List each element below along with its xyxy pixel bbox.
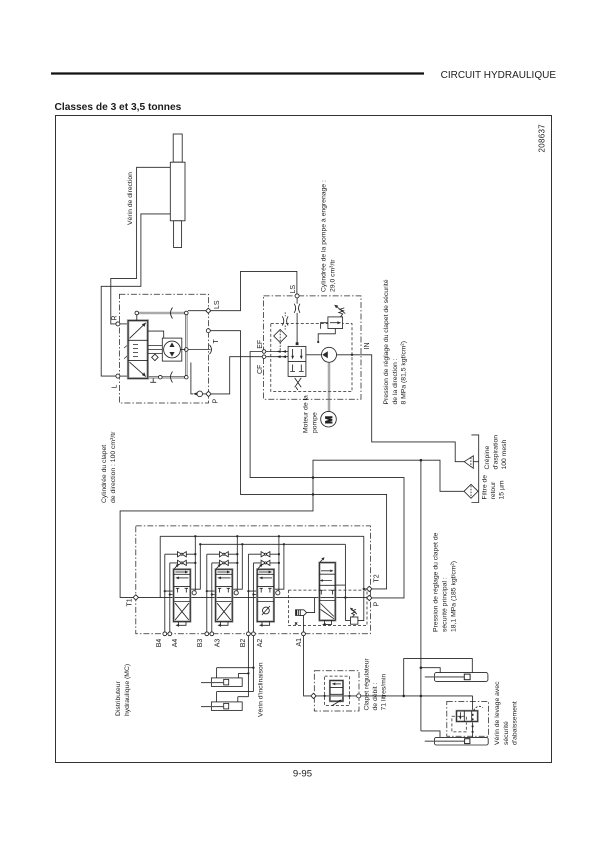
svg-text:B3: B3 [197,639,204,648]
node L [116,374,120,378]
steering valve top diagonal [130,323,146,339]
direction relief valve body [328,317,343,329]
node T2 [367,586,372,591]
open-center gallery [138,597,367,599]
svg-text:T1: T1 [127,598,134,606]
svg-text:CF: CF [257,365,264,374]
svg-text:CIRCUIT HYDRAULIQUE: CIRCUIT HYDRAULIQUE [441,70,557,81]
svg-text:Vérin de levage avec: Vérin de levage avec [494,681,501,745]
lift safety inner dashed box [452,716,466,732]
svg-text:T2: T2 [373,574,380,582]
svg-text:B4: B4 [156,639,163,648]
junction rod line [420,666,423,669]
steering cylinder rod top [173,134,182,162]
steering valve body halo [128,321,148,379]
steering cylinder rod bottom [174,221,182,248]
relief spring [339,308,345,317]
pump unit dash-dot box [264,296,361,399]
priority valve lower glyphs [290,365,303,372]
svg-text:A2: A2 [257,639,264,648]
S4 float diagonals [321,604,334,619]
safety valve pilot arc [474,706,483,710]
CF line to valve [266,356,288,358]
feedback link top [137,312,187,314]
main relief left link [345,620,350,622]
svg-text:EF: EF [257,340,264,349]
main relief arrow [351,609,357,615]
relief arrowhead [337,321,341,324]
orifice 1 [294,304,300,313]
svg-text:29,0 cm³/tr: 29,0 cm³/tr [329,259,336,292]
check diamond inside [152,354,159,361]
svg-text:R: R [111,315,118,320]
svg-text:Crépine: Crépine [484,445,491,469]
wire A2 to tilt rod sides [217,636,254,702]
spool to gerotor stubs [148,346,163,354]
node CF [262,355,266,359]
lift cylinder 1 rod [425,676,465,678]
main relief right link [358,591,364,621]
spring anchor line right [188,349,210,351]
svg-text:A3: A3 [215,639,222,648]
relief pilot return [318,329,335,342]
node LS pump [295,294,299,298]
svg-text:LS: LS [214,300,221,309]
pilot check link [307,598,315,613]
relief pilot end dot [317,341,319,343]
steering valve body [128,321,148,379]
tank return drop line [420,460,422,731]
P feed drop line [191,363,193,394]
steering unit dash-dot box [119,294,208,403]
filter mesh dash [470,486,472,497]
svg-text:Distributeur: Distributeur [115,681,122,716]
svg-text:pompe: pompe [311,412,318,433]
valve left pilot stubs [124,345,128,359]
wire LS steering to pump LS [211,271,297,310]
node LS steering [206,308,211,313]
tilt cylinder 2 body [211,702,242,711]
MC distributor dash-dot box [136,526,371,634]
link R to valve [120,323,128,325]
node EF [262,350,266,354]
EF flow arrowheads [277,350,281,353]
wire steering T to MC T2 [210,331,386,589]
regulator through line [315,695,356,697]
link LS into box [188,310,206,312]
regulator valve body [330,681,343,702]
wire feed to lift cylinder 1 head [404,659,473,696]
pilot check square [296,610,301,616]
motor circle [321,411,337,427]
suction strainer funnel [464,456,473,469]
steering valve bottom diagonal [130,362,146,376]
S4 row glyphs [320,571,334,595]
steering valve divider 1 [128,339,148,341]
lift cylinder 1 body [435,673,488,682]
node P MC [367,595,372,600]
safety valve body halo [457,711,478,722]
relief adjust arrowhead [334,305,338,309]
line seat to P node [203,393,206,395]
node R [116,322,120,326]
inner dashed box [271,324,352,392]
regulator dividers [330,687,343,694]
lowering lock dashed box [288,590,367,625]
lift cylinder 2 piston [465,739,470,744]
svg-text:d'aspiration: d'aspiration [493,435,500,470]
node T1 [133,595,138,600]
safety valve junction dots [472,714,474,733]
spring arc bottom [171,372,173,383]
wire MC T1 return to tank filter [120,460,464,597]
svg-text:de la direction :: de la direction : [392,358,399,404]
filter drain dash [279,343,281,351]
priority pilot square [296,342,299,345]
gerotor triangle up [169,342,174,347]
main relief spring [352,609,356,617]
stub to bracket [148,331,164,338]
wire B2 to tilt head sides [238,636,249,702]
junction lift feed [402,695,405,698]
safety valve left arrow [459,712,461,717]
wire priority EF to MC P [250,352,404,598]
junction P drop gallery [344,596,346,598]
section 2 closed X [217,603,231,620]
svg-text:A4: A4 [172,639,179,648]
wire steering cylinder bottom port to L [101,214,170,376]
svg-text:A1: A1 [296,638,303,647]
relief adjust arrow [336,306,346,314]
A1 riser upper [303,615,305,631]
svg-text:208637: 208637 [538,124,547,153]
spring arc top [171,308,173,319]
S4 bottom stub [325,620,332,624]
T1 riser [159,536,161,597]
relief left line [321,323,328,329]
svg-text:100 mesh: 100 mesh [501,439,508,469]
svg-text:M: M [324,416,334,424]
tilt cylinder 2 rod [201,706,224,708]
priority valve body [288,346,306,376]
lift section S4 body [319,563,335,621]
regulator flow arrow [333,683,341,685]
svg-text:Pression de réglage du clapet: Pression de réglage du clapet de sécurit… [383,279,390,404]
orifice2 link dashes [284,312,286,329]
priority arrowheads [291,356,294,360]
svg-text:Vérin d'inclinaison: Vérin d'inclinaison [258,662,265,717]
pilot check marks [297,610,299,616]
junction T2 drop [363,588,365,590]
svg-text:Clapet régulateur: Clapet régulateur [363,658,370,711]
junction B2 [247,672,249,674]
valve section 1 B4 A4 [163,535,202,636]
node P steering diamond [206,391,211,396]
svg-text:Cylindrée de la pompe à engren: Cylindrée de la pompe à engrenage : [320,180,327,292]
link L to valve [120,375,128,377]
diagram frame [56,116,552,763]
gerotor triangle down [169,352,174,357]
T2 drop [364,536,367,589]
svg-text:d'abaissement: d'abaissement [512,701,519,745]
svg-text:Pression de réglage du clapet: Pression de réglage du clapet de [432,532,439,632]
wire regulator to lift [361,695,473,697]
P drop [344,544,346,620]
flow regulator dash-dot box [314,671,359,711]
svg-text:71 litres/min: 71 litres/min [380,674,387,711]
priority valve divider [288,360,306,362]
steering valve bottom arrowhead [142,372,146,376]
gerotor bracket [162,338,182,361]
steering valve mid stubs [133,345,138,357]
junction on IN line at pump box edge [351,354,353,356]
lift cylinder 2 body [435,737,489,745]
pump to valve line [306,354,322,356]
flow regulator inner dashed box [325,676,350,706]
junction A2 [252,667,254,669]
valve section 3 B2 A2 [247,535,286,636]
section 3 circle arrow [262,606,270,615]
feedback pivot circles [135,311,188,379]
steering valve top diagonal arrowhead [142,323,146,327]
tilt cylinder 1 piston [224,679,229,685]
feedback link bottom [149,376,187,378]
pilot check poppet [300,610,306,616]
S4 lever arrow [320,559,323,562]
priority valve top arrows [293,349,302,358]
tilt cylinder 1 rod [201,682,224,684]
spring hook right [210,345,212,354]
tank wall [471,435,478,503]
svg-text:Cylindrée du clapet: Cylindrée du clapet [101,445,108,503]
tilt cylinder 1 body [211,678,242,687]
valve section 2 B3 A3 [205,535,244,636]
junction tank return [420,459,423,462]
svg-text:LS: LS [290,285,297,294]
section 3 regen circle [263,607,270,614]
svg-text:sécurité: sécurité [503,721,510,745]
wire steering cylinder top port to R [111,167,171,324]
svg-text:8 MPa (81,5 kgf/cm²): 8 MPa (81,5 kgf/cm²) [401,341,408,404]
EF line to valve [266,351,288,353]
wire tank to lift cylinder 1 rod [421,668,440,673]
junction dashes crossing [324,695,326,697]
wire tank to lift cylinder 2 rod [421,731,440,738]
drain stub [152,378,154,382]
wire feed through safety valve [472,696,474,738]
lift cylinder 2 rod [425,740,465,742]
svg-text:L: L [111,385,118,389]
junction tank cross [420,695,423,698]
lift cylinder 1 piston [464,674,470,680]
svg-text:Filtre de: Filtre de [482,475,489,500]
priority spring X [295,378,302,390]
section 1 closed X [175,603,189,620]
svg-text:T: T [213,339,220,344]
relief arrow [330,322,339,324]
tilt cylinder 2 piston [224,703,229,709]
regulator valve body halo [330,681,343,702]
header rule [51,72,424,74]
LS pilot line upper [296,298,298,304]
safety valve body [457,711,478,722]
S4 dividers [319,574,335,600]
wire pump IN suction [337,355,465,462]
main relief valve body [351,617,358,624]
node regulator out [357,694,361,698]
orifice 2 [282,316,288,325]
drive shaft double line [328,362,330,412]
node T steering [206,329,210,333]
CF flow arrowheads [277,355,281,358]
spring x mark [295,622,297,624]
junction EF line crossing [312,476,315,479]
svg-text:15 µm: 15 µm [499,480,506,499]
svg-text:B2: B2 [240,639,247,648]
node regulator in [311,693,316,698]
S4 right stub to P drop [335,584,345,586]
pump triangle [322,351,328,358]
wire priority CF to steering P [211,357,263,394]
wire A1 down [304,636,312,696]
drain tank tick [150,381,156,383]
feedback link right [186,313,188,377]
link top rail to body [136,315,138,321]
svg-text:Moteur de la: Moteur de la [302,395,309,433]
gerotor to link pivot [180,349,185,351]
filter dashes inside [279,331,281,341]
svg-text:P: P [213,399,220,404]
pilot filter diamond [274,330,287,343]
strainer mesh dash [470,458,472,467]
P check arrowhead [193,392,197,395]
return filter diamond [464,484,478,498]
svg-text:hydraulique (MC): hydraulique (MC) [124,664,131,716]
tank rail [160,535,364,537]
feed rail [200,543,345,545]
svg-text:9-95: 9-95 [293,769,312,780]
strainer to tank line [473,461,478,463]
steering cylinder body [170,162,185,221]
svg-text:Vérin de direction: Vérin de direction [127,172,134,225]
svg-text:sécurité principal :: sécurité principal : [442,577,449,632]
LS pilot line lower [296,313,298,344]
P check seat circle [197,391,203,397]
svg-text:18,1 MPa (185 kgf/cm²): 18,1 MPa (185 kgf/cm²) [451,561,458,632]
svg-text:IN: IN [364,343,371,350]
junction T line crossing [312,493,315,496]
svg-text:retour: retour [490,481,497,499]
svg-text:de direction : 100 cm³/tr: de direction : 100 cm³/tr [110,431,117,503]
safety valve dividers [464,711,471,722]
gear pump circle [322,347,337,362]
node A1 [302,632,306,636]
lift safety dash-dot box [447,701,489,736]
svg-text:Classes de 3 et 3,5 tonnes: Classes de 3 et 3,5 tonnes [55,102,182,113]
steering valve divider 2 [128,359,148,361]
regulator variable arrow [332,701,341,706]
gerotor circle [164,341,181,358]
lift section S4 body halo [319,563,335,621]
svg-text:de débit :: de débit : [372,682,379,710]
svg-text:P: P [373,602,380,607]
